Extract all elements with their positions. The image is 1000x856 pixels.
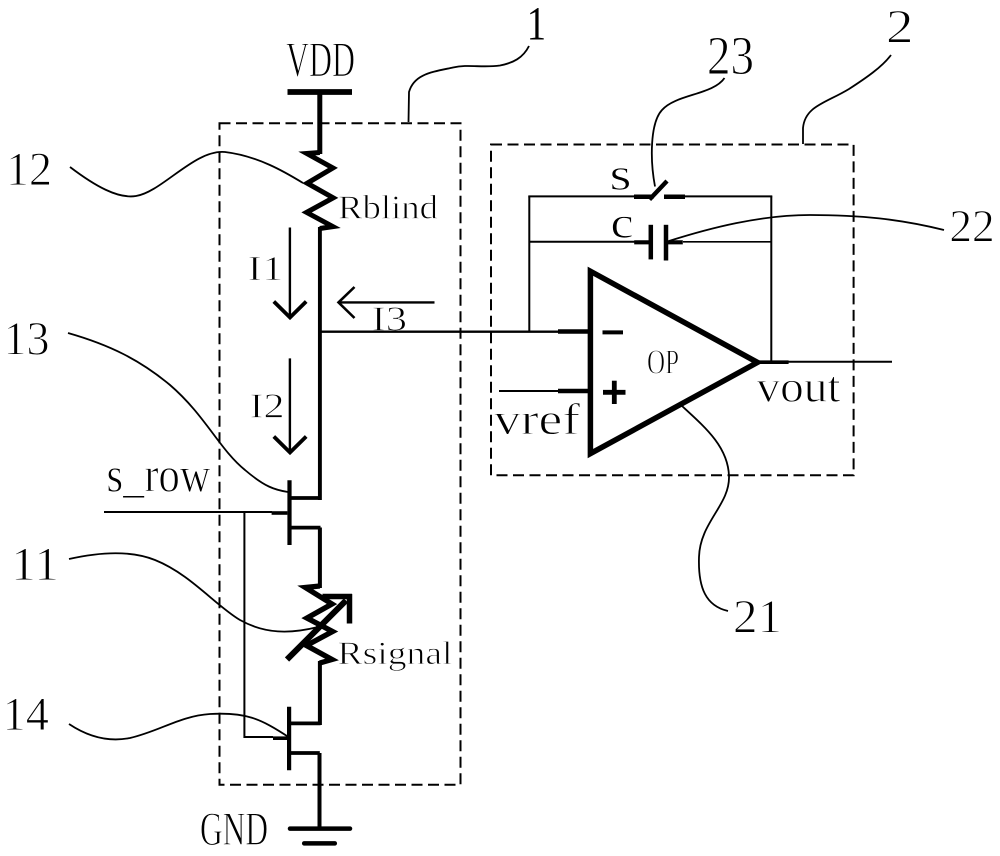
switch S lever — [650, 181, 668, 200]
op-amp output stub — [758, 360, 789, 364]
svg-text:22: 22 — [949, 201, 994, 253]
current arrow I2 — [274, 358, 306, 452]
leader from 2 to box 2 — [803, 55, 891, 144]
wire vout — [788, 361, 892, 363]
svg-text:13: 13 — [4, 313, 50, 366]
op-amp inverting input stub — [558, 329, 590, 334]
svg-text:vref: vref — [494, 395, 580, 444]
wire vref to non-inverting input — [499, 390, 558, 392]
svg-text:c: c — [610, 199, 633, 248]
wire gate branch down to M14 — [244, 512, 273, 737]
svg-text:11: 11 — [11, 538, 59, 591]
leader from 21 to op-amp — [682, 406, 729, 611]
feedback loop right vertical wire — [770, 196, 772, 361]
svg-text:23: 23 — [707, 25, 754, 86]
leader from 13 to M13 — [68, 333, 288, 492]
svg-text:12: 12 — [6, 143, 52, 196]
current arrow I3 — [339, 287, 435, 318]
svg-text:21: 21 — [733, 591, 782, 644]
svg-text:Rsignal: Rsignal — [338, 636, 453, 672]
svg-text:I2: I2 — [250, 387, 285, 426]
leader from 23 to switch s — [652, 78, 725, 187]
op-amp U21 triangle — [590, 271, 757, 453]
wire M13 source to Rsignal — [318, 528, 322, 589]
svg-text:vout: vout — [757, 363, 841, 412]
capacitor C plates — [634, 225, 683, 261]
wire Rblind to node A and down to M13 drain — [318, 227, 322, 500]
leader from 1 to box 1 — [409, 46, 530, 122]
resistor Rblind — [307, 153, 334, 229]
transistor M13 (row select) — [272, 480, 321, 545]
wire node A to op-amp inverting input — [320, 331, 558, 333]
svg-text:2: 2 — [886, 1, 914, 54]
leader from 12 to Rblind — [70, 152, 303, 197]
capacitor row wire right — [683, 241, 771, 243]
transistor M14 — [273, 707, 321, 771]
svg-text:I1: I1 — [248, 249, 284, 288]
wire VDD to Rblind — [317, 91, 322, 154]
leader from 11 to Rsignal — [69, 553, 318, 631]
wire Rsignal to M14 drain — [318, 661, 322, 725]
switch row wire left — [528, 195, 634, 197]
svg-text:GND: GND — [200, 803, 268, 856]
arrow across Rsignal — [287, 594, 352, 660]
VDD rail bar — [288, 89, 353, 95]
op-amp non-inverting input stub — [558, 389, 590, 394]
feedback loop left vertical wire — [528, 196, 530, 331]
leader from 14 to M14 — [69, 714, 290, 740]
dashed box 1 (pixel cell) — [220, 123, 461, 785]
current arrow I1 — [274, 228, 306, 318]
wire s_row gate line — [104, 511, 272, 513]
svg-text:1: 1 — [527, 0, 546, 51]
svg-text:14: 14 — [3, 688, 50, 741]
svg-text:s: s — [610, 149, 632, 200]
svg-text:Rblind: Rblind — [338, 190, 438, 227]
ground symbol — [290, 829, 350, 844]
capacitor row wire left — [529, 241, 648, 243]
op-amp minus sign — [603, 330, 624, 334]
op-amp plus sign — [603, 381, 626, 404]
svg-text:s_row: s_row — [107, 447, 211, 503]
dashed box 2 (readout) — [491, 145, 854, 476]
svg-text:VDD: VDD — [286, 31, 355, 87]
wire M14 source to ground — [318, 753, 322, 828]
resistor Rsignal (variable) — [305, 586, 332, 663]
svg-text:OP: OP — [647, 343, 679, 382]
leader from 22 to capacitor c — [669, 215, 944, 241]
switch S contacts — [634, 195, 685, 200]
switch row wire right — [684, 195, 772, 197]
